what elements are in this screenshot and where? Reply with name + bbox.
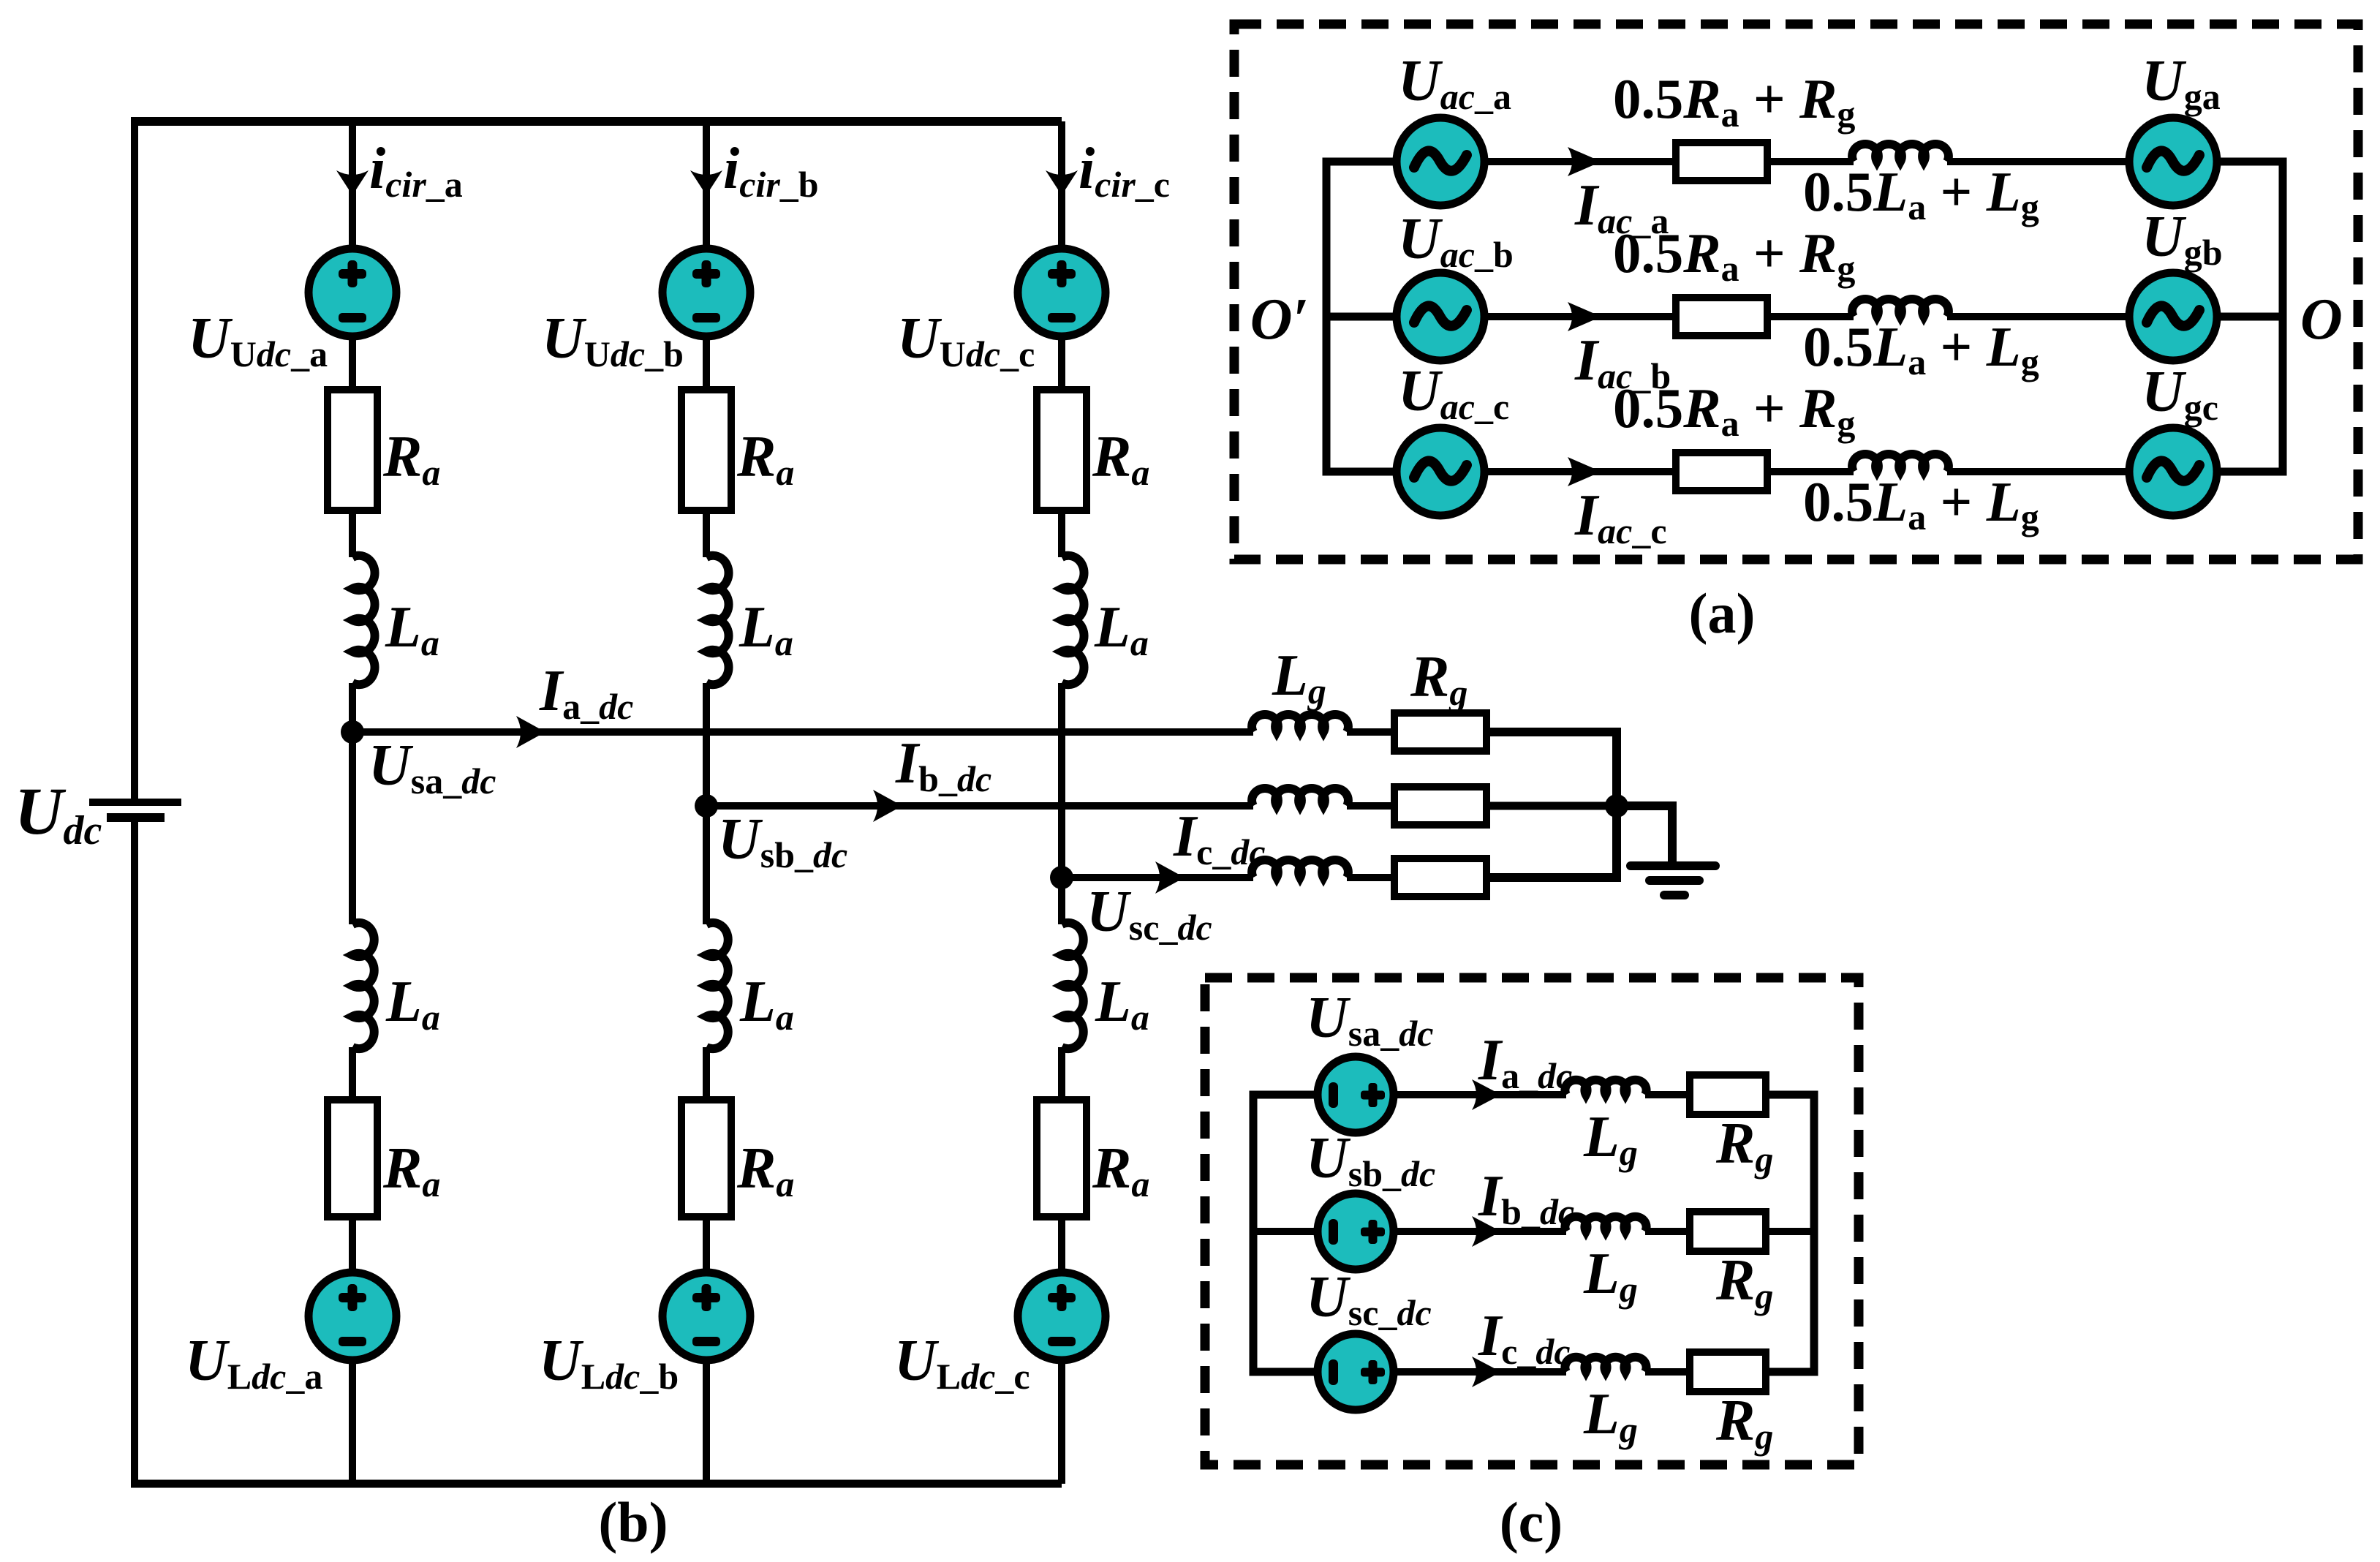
wire row b (1484, 313, 1676, 320)
source U_Ldc_a (309, 1272, 396, 1360)
wire row a (1767, 158, 1854, 165)
source U_ac_c (1397, 428, 1484, 516)
wire O bus (2215, 162, 2283, 472)
wire (c) row c right (1766, 1368, 1814, 1376)
resistor Ra lower a (328, 1100, 377, 1217)
wire branch a (349, 510, 356, 557)
svg-text:(a): (a) (1689, 581, 1756, 645)
inductor La upper b (706, 556, 729, 684)
resistor Ra lower b (681, 1100, 731, 1217)
wire branch a (349, 336, 356, 390)
wire branch c bottom (1058, 1360, 1065, 1484)
source U_ac_b (1397, 273, 1484, 361)
dashed box (a) (1234, 24, 2358, 559)
wire (c) row c left (1253, 1368, 1318, 1376)
resistor Rg row a (1394, 713, 1486, 751)
inductor Lg row b (1252, 788, 1348, 806)
wire row a (1347, 728, 1394, 736)
wire I_a_dc row (352, 728, 1253, 736)
wire branch b (703, 1047, 710, 1100)
wire branch a (349, 1217, 356, 1272)
inductor Lg (c) row a (1565, 1080, 1646, 1095)
source U_ac_a (1397, 118, 1484, 205)
source U_sb_dc (1318, 1193, 1394, 1269)
arrow I_c_dc (c) (1472, 1357, 1501, 1387)
wire branch b mid (703, 683, 710, 924)
arrow i_cir_a (336, 170, 369, 195)
wire (c) row b (1394, 1228, 1566, 1235)
wire branch a top (349, 121, 356, 249)
resistor Rg row b (1394, 787, 1486, 825)
wire I_b_dc row (706, 802, 1253, 810)
wire row b (1767, 313, 1854, 320)
wire row c (1947, 468, 2129, 475)
wire row a (1484, 158, 1676, 165)
inductor Lg row a (1252, 714, 1348, 732)
wire row b (1347, 802, 1394, 810)
wire junction vertical (1486, 732, 1617, 878)
resistor Rg (c) row c (1690, 1352, 1766, 1392)
arrow I_a_dc (c) (1472, 1079, 1501, 1110)
wire (c) row b left (1253, 1228, 1318, 1235)
wire row a to junction (1486, 728, 1617, 736)
resistor Rg (c) row a (1690, 1075, 1766, 1114)
wire row c left (1328, 468, 1398, 476)
source U_Udc_a (309, 249, 396, 336)
arrow i_cir_b (690, 170, 722, 195)
wire row b left (1328, 313, 1398, 321)
wire I_c_dc row (1062, 874, 1253, 881)
arrow I_c_dc (1155, 861, 1185, 894)
wire top bus (131, 117, 1062, 126)
wire O-prime bus (1326, 162, 1398, 472)
wire branch c (1058, 510, 1065, 557)
wire row b (1947, 313, 2129, 320)
source U_Udc_c (1018, 249, 1106, 336)
resistor Rg row c (1394, 859, 1486, 897)
wire row a left (1328, 158, 1398, 166)
svg-text:(b): (b) (598, 1490, 668, 1554)
wire (c) row a left (1253, 1091, 1318, 1098)
resistor Ra upper c (1037, 390, 1087, 510)
battery Udc plate short (107, 813, 165, 822)
wire branch a bottom (349, 1360, 356, 1484)
battery Udc plate long (89, 799, 181, 806)
wire row b to junction (1486, 802, 1617, 810)
wire branch b bottom (703, 1360, 710, 1484)
node Usb_dc (695, 794, 718, 818)
wire (c) row a (1645, 1091, 1690, 1098)
wire (c) right bus (1767, 1095, 1814, 1372)
inductor Lg (c) row b (1565, 1217, 1646, 1231)
source U_gb (2129, 273, 2217, 361)
wire row c (1347, 874, 1394, 881)
wire left bus lower (131, 820, 138, 1484)
arrow I_b_dc (c) (1472, 1216, 1501, 1247)
wire branch b (703, 510, 710, 557)
wire (c) row c (1645, 1368, 1690, 1376)
wire row a (1947, 158, 2129, 165)
wire branch b top (703, 121, 710, 249)
wire (c) row a right (1766, 1091, 1814, 1098)
resistor 0.5Ra+Rg row a (1676, 143, 1767, 181)
source U_ga (2129, 118, 2217, 205)
wire row c to junction (1486, 874, 1617, 882)
source U_sc_dc (1318, 1334, 1394, 1410)
arrow I_a_dc (516, 716, 545, 748)
wire branch c top (1058, 121, 1065, 249)
source U_sa_dc (1318, 1057, 1394, 1133)
resistor 0.5Ra+Rg row c (1676, 453, 1767, 491)
wire branch c (1058, 1217, 1065, 1272)
wire row c right (2215, 468, 2281, 476)
inductor La upper c (1062, 556, 1084, 684)
inductor 0.5La+Lg row a (1852, 144, 1949, 162)
source U_gc (2129, 428, 2217, 516)
resistor Ra upper b (681, 390, 731, 510)
ground (1626, 861, 1720, 899)
wire branch b (703, 1217, 710, 1272)
wire (c) row c (1394, 1368, 1566, 1376)
wire left bus upper (131, 121, 138, 799)
inductor La lower b (706, 923, 728, 1049)
node Usc_dc (1050, 866, 1073, 889)
resistor Ra upper a (328, 390, 377, 510)
resistor 0.5Ra+Rg row b (1676, 298, 1767, 336)
wire branch c (1058, 1047, 1065, 1100)
source U_Ldc_b (662, 1272, 750, 1360)
svg-text:(c): (c) (1500, 1490, 1563, 1554)
wire row b right (2215, 313, 2281, 321)
wire row c (1767, 468, 1854, 475)
dashed box (c) (1205, 978, 1859, 1465)
wire (c) left bus (1253, 1095, 1316, 1372)
source U_Ldc_c (1018, 1272, 1106, 1360)
arrow I_ac_c (1568, 457, 1601, 486)
wire branch a (349, 1047, 356, 1100)
inductor La lower a (352, 923, 374, 1049)
inductor 0.5La+Lg row b (1852, 299, 1949, 317)
arrow i_cir_c (1046, 170, 1078, 195)
node junction (1605, 794, 1628, 818)
svg-text:O: O (2300, 287, 2343, 352)
resistor Ra lower c (1037, 1100, 1087, 1217)
wire (c) row b right (1766, 1228, 1814, 1235)
wire branch c mid (1058, 683, 1065, 924)
resistor Rg (c) row b (1690, 1212, 1766, 1251)
node Usa_dc (341, 720, 364, 744)
wire row a right (2215, 158, 2281, 166)
inductor Lg row c (1252, 860, 1348, 878)
arrow I_ac_a (1568, 147, 1601, 176)
wire branch c (1058, 336, 1065, 390)
wire bottom bus (131, 1480, 1062, 1488)
wire (c) row a (1394, 1091, 1566, 1098)
inductor La upper a (352, 556, 375, 684)
arrow I_b_dc (873, 790, 902, 822)
source U_Udc_b (662, 249, 750, 336)
inductor 0.5La+Lg row c (1852, 454, 1949, 472)
wire branch b (703, 336, 710, 390)
inductor Lg (c) row c (1565, 1357, 1646, 1372)
inductor La lower c (1062, 923, 1084, 1049)
wire row c (1484, 468, 1676, 475)
wire to ground stem (1617, 806, 1672, 863)
svg-text:O′: O′ (1250, 287, 1309, 352)
arrow I_ac_b (1568, 302, 1601, 331)
wire branch a mid (349, 683, 356, 924)
wire (c) row b (1645, 1228, 1690, 1235)
